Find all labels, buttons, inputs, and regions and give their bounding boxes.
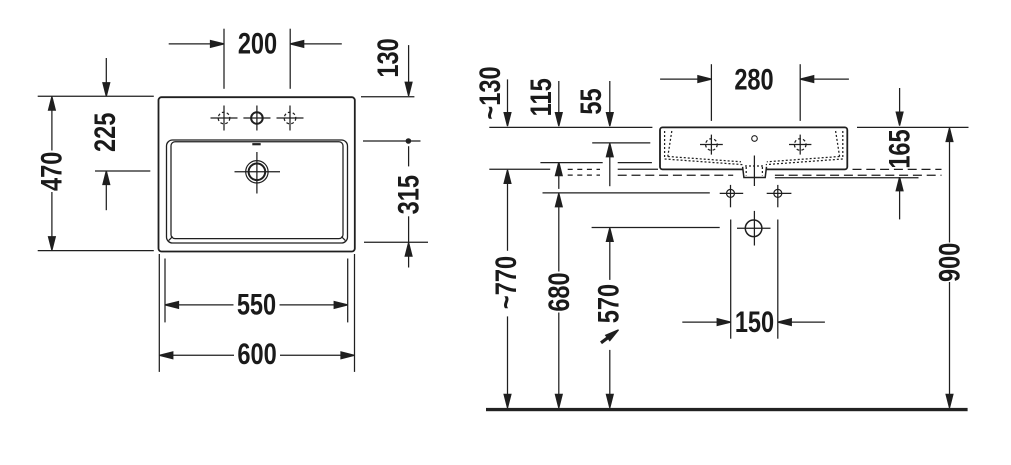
svg-text:225: 225	[88, 112, 121, 151]
svg-text:470: 470	[35, 152, 68, 191]
svg-text:550: 550	[237, 288, 276, 321]
svg-text:315: 315	[392, 175, 425, 214]
svg-text:570: 570	[592, 284, 625, 323]
svg-text:55: 55	[574, 88, 607, 114]
svg-text:280: 280	[734, 63, 773, 96]
svg-text:~770: ~770	[490, 256, 523, 309]
svg-text:~130: ~130	[473, 66, 506, 119]
svg-text:680: 680	[543, 272, 576, 311]
svg-text:600: 600	[237, 337, 276, 370]
svg-text:150: 150	[735, 305, 774, 338]
svg-text:200: 200	[238, 27, 277, 60]
svg-text:900: 900	[933, 243, 966, 282]
svg-text:130: 130	[372, 38, 405, 77]
svg-text:115: 115	[525, 78, 558, 116]
svg-text:165: 165	[883, 129, 916, 168]
